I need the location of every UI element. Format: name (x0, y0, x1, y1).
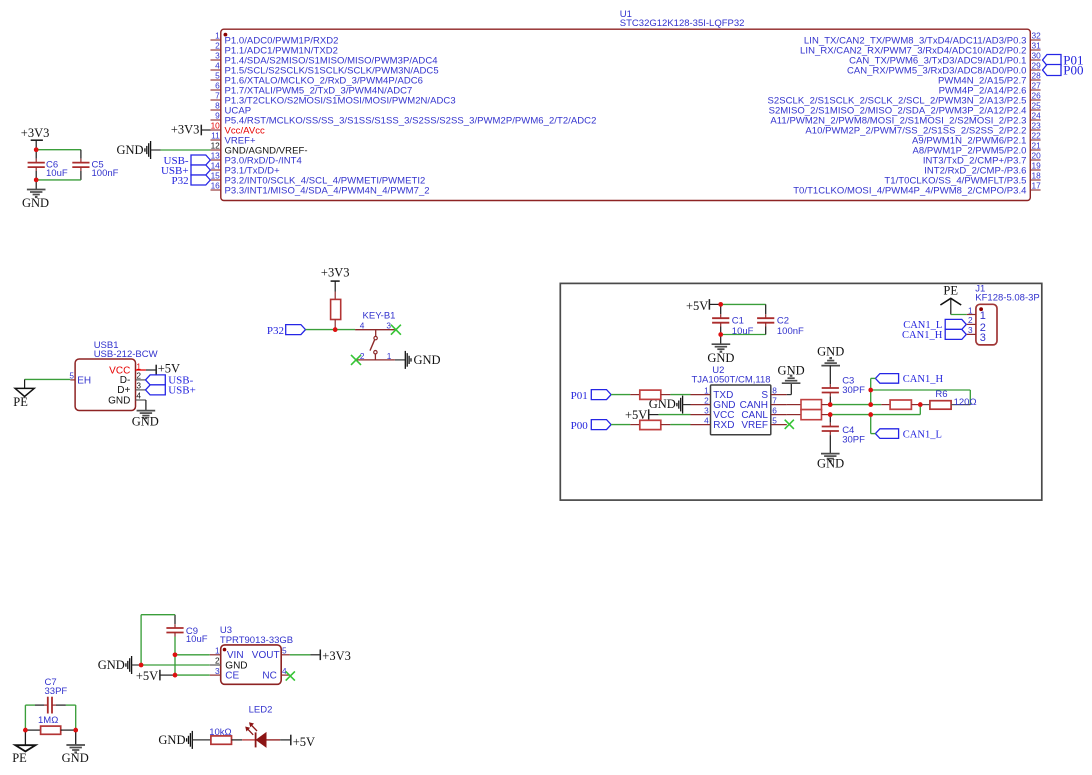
svg-text:32: 32 (1032, 31, 1042, 41)
USB1 pin 3 D+ (117, 380, 145, 396)
svg-text:+5V: +5V (158, 361, 180, 375)
U2 pin 4 RXD (691, 415, 735, 431)
svg-text:P00: P00 (571, 420, 589, 432)
svg-text:P5.4/RST/MCLKO/SS/SS_3/S1SS/S1: P5.4/RST/MCLKO/SS/SS_3/S1SS/S1SS_3/S2SS/… (225, 115, 597, 126)
U2 pin 7 CANH (740, 395, 787, 411)
power flag +5V at U2 pin3 (625, 408, 659, 422)
svg-text:3: 3 (215, 666, 220, 676)
svg-text:30PF: 30PF (842, 435, 865, 446)
U1 pin 17 T0/T1CLKO/MOSI_4/PWM4P_4/PWM8_2/CMPO/P3.4 (793, 181, 1041, 197)
U1 pin 2 P1.1/ADC1/PWM1N/TXD2 (211, 41, 338, 57)
wire CE row (175, 674, 210, 676)
power flag +3V3 at U1 pin 10 (171, 122, 211, 136)
svg-text:11: 11 (211, 131, 220, 141)
no-connect X at U2 pin5 VREF (785, 420, 794, 429)
ground symbol below C4 (817, 454, 844, 471)
resistor pull-up at KEY-B1 (331, 292, 341, 330)
svg-text:GND: GND (158, 733, 185, 747)
U3 pin 4 NC (262, 666, 290, 682)
earth PE symbol above J1 (940, 284, 961, 315)
earth PE symbol bottom-left (12, 730, 35, 765)
svg-text:13: 13 (211, 151, 221, 161)
svg-text:100nF: 100nF (777, 326, 804, 337)
svg-text:7: 7 (772, 395, 777, 405)
wire C5 bottom to C6 bottom (36, 179, 81, 181)
svg-text:GND: GND (98, 658, 125, 672)
earth PE symbol left of USB1 (13, 379, 34, 409)
wire resistor to U2 RXD (670, 424, 690, 426)
USB1 pin 4 GND (108, 390, 146, 406)
svg-text:NC: NC (262, 671, 276, 682)
svg-text:1: 1 (968, 305, 973, 315)
svg-text:+5V: +5V (136, 669, 158, 683)
svg-text:3: 3 (704, 405, 709, 415)
svg-text:GND: GND (132, 415, 159, 429)
svg-text:+3V3: +3V3 (322, 649, 351, 663)
capacitor C1 (712, 304, 754, 336)
wire C6 bottom lead (35, 167, 37, 171)
wire resistor to LED (242, 739, 255, 741)
svg-text:T0/T1CLKO/MOSI_4/PWM4P_4/PWM8_: T0/T1CLKO/MOSI_4/PWM4P_4/PWM8_2/CMPO/P3.… (793, 185, 1026, 196)
svg-text:6: 6 (772, 405, 777, 415)
no-connect X at KEY pin 2 (351, 355, 361, 365)
svg-text:P32: P32 (267, 325, 284, 337)
wire CANL row to vertical (830, 414, 871, 416)
U1 pin 32 LIN_TX/CAN2_TX/PWM8_3/TxD4/ADC11/AD3/P0.3 (804, 31, 1041, 47)
svg-text:9: 9 (215, 111, 220, 121)
svg-text:GND: GND (817, 344, 844, 358)
wire CAN1_H to CANH row (871, 377, 876, 379)
net flag USB- at USB1 (146, 375, 194, 387)
wire C9 loop left vertical (140, 615, 142, 665)
wire C6 top lead (35, 150, 37, 159)
wire PE to USB1 pin5 (25, 378, 71, 380)
svg-text:RXD: RXD (713, 420, 734, 431)
svg-text:GND: GND (117, 143, 144, 157)
U2 pin 8 S (761, 385, 786, 401)
node junction GND row (139, 663, 144, 668)
power symbol +3V3 above KEY-B1 (321, 266, 350, 292)
power symbol +3V3 top-left (21, 126, 50, 150)
U1 pin 5 P1.6/XTALO/MCLKO_2/RxD_3/PWM4P/ADC6 (211, 71, 424, 87)
resistor series P01/TXD (630, 390, 670, 399)
U1 pin 3 P1.4/SDA/S2MISO/S1MISO/MISO/PWM3P/ADC4 (211, 51, 438, 67)
resistor series P00/RXD (630, 420, 670, 429)
U1 pin 9 P5.4/RST/MCLKO/SS/SS_3/S1SS/S1SS_3/S2SS/S2SS_3/PWM2P/PWM6_2/T2/ADC2 (211, 111, 597, 127)
svg-text:16: 16 (211, 181, 221, 191)
node junction C6 bottom (34, 178, 39, 183)
power flag +3V3 at U3 VOUT (290, 649, 351, 663)
wire PE to J1 pin1 (951, 314, 967, 316)
U1 pin 6 P1.7/XTALI/PWM5_2/TxD_3/PWM4N/ADC7 (211, 81, 413, 97)
wire C9 to VIN/CE vertical (174, 637, 176, 676)
svg-text:5: 5 (215, 71, 220, 81)
net flag P00 at U1 right (1043, 62, 1084, 77)
svg-text:26: 26 (1032, 91, 1042, 101)
wire termination loop top (871, 389, 971, 391)
U2 pin 3 VCC (691, 405, 735, 421)
svg-text:5: 5 (772, 415, 777, 425)
wire P32 to key (306, 329, 356, 331)
svg-text:KF128-5.08-3P: KF128-5.08-3P (975, 293, 1039, 304)
wire C7 left corner (25, 704, 35, 706)
svg-text:GND: GND (62, 751, 89, 765)
svg-text:1: 1 (387, 351, 392, 361)
svg-text:R6: R6 (935, 389, 947, 400)
ground flag GND at U2 pin2 (649, 396, 691, 414)
svg-text:29: 29 (1032, 61, 1042, 71)
node junction mid termination (918, 402, 923, 407)
svg-text:10uF: 10uF (186, 634, 208, 645)
wire LED to +5V (266, 739, 280, 741)
svg-text:PE: PE (943, 284, 958, 298)
node junction CE row (173, 673, 178, 678)
svg-text:3: 3 (136, 380, 141, 390)
svg-text:6: 6 (215, 81, 220, 91)
wire USB1 pin4 to ground (145, 400, 147, 410)
svg-text:31: 31 (1032, 41, 1042, 51)
capacitor C9 (166, 615, 207, 645)
svg-text:STC32G12K128-35I-LQFP32: STC32G12K128-35I-LQFP32 (620, 18, 745, 29)
svg-text:27: 27 (1032, 81, 1042, 91)
wire CAN1_L to CANL row (870, 415, 872, 434)
capacitor C7 (35, 677, 67, 713)
svg-text:PE: PE (13, 395, 28, 409)
svg-text:VREF: VREF (741, 420, 768, 431)
U1 pin 8 UCAP (211, 101, 252, 117)
USB1 pin 2 D- (120, 370, 146, 386)
svg-text:+5V: +5V (293, 735, 315, 749)
wire P01 to resistor (611, 394, 630, 396)
svg-text:P00: P00 (1063, 62, 1083, 77)
U1 pin 24 A11/PWM2N_2/PWM8/MOSI_2/S1MOSI_2/S2MOSI_2/P2.3 (770, 111, 1041, 127)
svg-text:GND: GND (707, 351, 734, 365)
svg-text:15: 15 (211, 171, 221, 181)
U1 pin 20 INT3/TxD_2/CMP+/P3.7 (923, 151, 1041, 167)
svg-text:4: 4 (282, 666, 287, 676)
svg-text:25: 25 (1032, 101, 1042, 111)
capacitor C4 (822, 415, 865, 454)
U1 pin 26 S2SCLK_2/S1SCLK_2/SCLK_2/SCL_2/PWM3N_2/A13/P2.5 (768, 91, 1042, 107)
U1 pin 29 CAN_RX/PWM5_3/RxD3/ADC8/AD0/P0.0 (847, 61, 1041, 77)
svg-text:LED2: LED2 (249, 704, 273, 715)
svg-text:+3V3: +3V3 (21, 126, 50, 140)
svg-text:P01: P01 (571, 390, 588, 402)
common-mode choke lower winding (801, 410, 822, 420)
svg-text:20: 20 (1032, 151, 1042, 161)
net flag USB+ at USB1 (146, 385, 196, 397)
net flag USB+ at U1 pin 14 (161, 165, 210, 177)
wire CANH row to vertical (830, 404, 871, 406)
svg-text:2: 2 (136, 370, 141, 380)
net flag CAN1_L mid (875, 429, 941, 441)
USB1 pin 5 EH (69, 370, 91, 386)
U1 pin 15 P3.2/INT0/SCLK_4/SCL_4/PWMETI/PWMETI2 (211, 171, 426, 187)
svg-text:21: 21 (1032, 141, 1042, 151)
net flag P32 (267, 325, 306, 337)
LED LED2 (245, 722, 266, 747)
no-connect X at KEY pin 3 (391, 325, 401, 335)
svg-text:1MΩ: 1MΩ (38, 715, 58, 726)
svg-text:EH: EH (77, 375, 91, 386)
wire VIN row (175, 654, 210, 656)
U1 pin 12 GND/AGND/VREF- (211, 141, 308, 157)
U1 pin 21 A8/PWM1P_2/PWM5/P2.0 (913, 141, 1042, 157)
U1 pin 1 indicator dot (224, 33, 228, 37)
U1 pin 18 T1/T0CLKO/SS_4/PWMFLT/P3.5 (884, 171, 1041, 187)
svg-text:5: 5 (282, 646, 287, 656)
svg-text:USB+: USB+ (168, 385, 196, 397)
svg-text:VOUT: VOUT (252, 650, 280, 661)
ground symbol bottom-left (62, 730, 89, 765)
svg-text:3: 3 (980, 332, 986, 344)
svg-text:33PF: 33PF (45, 686, 68, 697)
U3 pin 2 GND (210, 656, 248, 672)
wire P00 to resistor (611, 424, 630, 426)
resistor R6 120ohm (922, 389, 976, 409)
power flag +5V above U2 (686, 299, 721, 313)
svg-text:3: 3 (215, 51, 220, 61)
svg-text:GND: GND (108, 395, 130, 406)
wire +5V to C2 (721, 303, 766, 305)
U1 pin 31 LIN_RX/CAN2_RX/PWM7_3/RxD4/ADC10/AD2/P0.2 (800, 41, 1041, 57)
net flag CAN1_H mid (875, 374, 943, 386)
connector USB1 body (75, 359, 135, 411)
wire pin12 to GND flag (161, 149, 211, 151)
svg-text:CAN1_L: CAN1_L (903, 429, 942, 440)
node junction C4/CANL (828, 412, 833, 417)
ground flag GND at LED row (158, 731, 210, 749)
power flag +5V at USB1 pin1 (146, 361, 180, 375)
svg-text:8: 8 (215, 101, 220, 111)
ground symbol below C1 (707, 344, 734, 365)
svg-text:12: 12 (211, 141, 221, 151)
wire choke lower to node (822, 414, 828, 416)
node junction termination top (868, 388, 873, 393)
U2 pin 5 VREF (741, 415, 786, 431)
U1 pin 13 P3.0/RxD/D-/INT4 (211, 151, 302, 167)
svg-text:1: 1 (704, 385, 709, 395)
J1 pin 1 (967, 305, 986, 322)
svg-text:CE: CE (225, 671, 239, 682)
wire U2 pin8 S to GND (787, 394, 792, 396)
svg-text:1: 1 (215, 646, 220, 656)
junction dots overlay (34, 147, 39, 152)
wire U2 CANH to choke (787, 404, 801, 406)
svg-text:2: 2 (215, 41, 220, 51)
IC U1 body (221, 29, 1031, 200)
svg-text:4: 4 (360, 320, 365, 330)
U2 pin 2 GND (691, 395, 736, 411)
capacitor C5 (72, 160, 118, 180)
resistor 1Mohm (25, 715, 75, 735)
resistor split termination (881, 400, 918, 409)
IC U2 body (711, 385, 771, 435)
net flag P00 (571, 420, 611, 432)
wire +3V3 to C5 top (36, 149, 81, 151)
J1 pin 3 (967, 325, 986, 344)
connector J1 body (976, 304, 997, 345)
svg-text:4: 4 (704, 415, 709, 425)
wire choke upper to node (822, 404, 828, 406)
U1 pin 25 S2MISO_2/S1MISO_2/MISO_2/SDA_2/PWM3P_2/A12/P2.4 (769, 101, 1042, 117)
ground symbol above U2 pin8 (778, 364, 805, 384)
U1 pin 23 A10/PWM2P_2/PWM7/SS_2/S1SS_2/S2SS_2/P2.2 (805, 121, 1041, 137)
U1 pin 7 P1.3/T2CLKO/S2MOSI/S1MOSI/MOSI/PWM2N/ADC3 (211, 91, 456, 107)
svg-text:10uF: 10uF (46, 168, 68, 179)
wire +5V to U2 pin3 (659, 414, 691, 416)
wire C1 to ground (720, 335, 722, 344)
power flag +5V at U3 CE (136, 669, 175, 683)
svg-text:+3V3: +3V3 (321, 266, 350, 280)
J1 pin 2 (967, 315, 986, 334)
svg-text:4: 4 (136, 390, 141, 400)
net flag CAN1_L at J1 pin2 (903, 319, 966, 331)
svg-text:120Ω: 120Ω (954, 397, 977, 408)
U1 pin 11 VREF+ (211, 131, 257, 147)
common-mode choke upper winding (801, 400, 822, 410)
svg-text:P3.3/INT1/MISO_4/SDA_4/PWM4N_4: P3.3/INT1/MISO_4/SDA_4/PWM4N_4/PWM7_2 (225, 185, 430, 196)
wire KEY pin1 to GND (395, 359, 405, 361)
wire CANH row to resistor (871, 404, 882, 406)
svg-text:GND: GND (22, 196, 49, 210)
wire resistor to U2 TXD (670, 394, 690, 396)
switch KEY-B1 (355, 320, 395, 361)
U2 pin 1 TXD (691, 385, 734, 401)
svg-text:8: 8 (772, 385, 777, 395)
wire C5 bottom lead (80, 167, 82, 171)
node junction CANH/vertical (868, 402, 873, 407)
net flag P01 (571, 390, 611, 402)
U3 pin 5 VOUT (252, 646, 290, 662)
IC U3 body (221, 645, 282, 684)
net flag P32 at U1 pin 15 (171, 175, 210, 187)
svg-text:GND: GND (778, 364, 805, 378)
U2 pin 6 CANL (741, 405, 786, 421)
U1 pin 10 Vcc/AVcc (211, 121, 266, 137)
ground symbol below C6 (22, 190, 49, 210)
wire C7 right corner (66, 704, 76, 706)
svg-text:+5V: +5V (686, 299, 708, 313)
svg-text:24: 24 (1032, 111, 1042, 121)
svg-text:22: 22 (1032, 131, 1042, 141)
ground symbol above C3 (817, 344, 844, 365)
node junction C3/CANH (828, 402, 833, 407)
svg-text:CAN1_H: CAN1_H (903, 374, 944, 385)
svg-text:4: 4 (215, 61, 220, 71)
wire CANL row jog (871, 414, 921, 416)
U1 pin 4 P1.5/SCL/S2SCLK/S1SCLK/SCLK/PWM3N/ADC5 (211, 61, 439, 77)
U1 pin 14 P3.1/TxD/D+ (211, 161, 281, 177)
svg-text:17: 17 (1032, 181, 1042, 191)
U1 pin 19 INT2/RxD_2/CMP-/P3.6 (924, 161, 1041, 177)
J1 pin1 indicator dot (979, 307, 983, 311)
capacitor C6 (28, 160, 68, 180)
node junction C1 bottom (718, 332, 723, 337)
svg-text:2: 2 (968, 315, 973, 325)
svg-text:CAN1_H: CAN1_H (902, 330, 943, 341)
wire U2 CANL to choke (787, 414, 801, 416)
U1 pin 30 CAN_TX/PWM6_3/TxD3/ADC9/AD1/P0.1 (849, 51, 1041, 67)
svg-text:100nF: 100nF (92, 168, 119, 179)
svg-text:1: 1 (215, 31, 220, 41)
svg-text:30PF: 30PF (842, 385, 865, 396)
svg-text:P1.3/T2CLKO/S2MOSI/S1MOSI/MOSI: P1.3/T2CLKO/S2MOSI/S1MOSI/MOSI/PWM2N/ADC… (225, 95, 456, 106)
node junction C1 top (718, 302, 723, 307)
U1 pin 16 P3.3/INT1/MISO_4/SDA_4/PWM4N_4/PWM7_2 (211, 181, 430, 197)
node junction +3V3/C6 top (34, 147, 39, 152)
svg-text:3: 3 (968, 325, 973, 335)
svg-text:23: 23 (1032, 121, 1042, 131)
svg-text:30: 30 (1032, 51, 1042, 61)
svg-text:2: 2 (215, 656, 220, 666)
svg-text:7: 7 (215, 91, 220, 101)
node junction VIN row (173, 653, 178, 658)
wire GND row (141, 664, 210, 666)
U3 pin 3 CE (210, 666, 240, 682)
net flag P01 at U1 right (1043, 52, 1084, 67)
no-connect X at U3 pin4 (286, 671, 295, 680)
svg-text:TJA1050T/CM,118: TJA1050T/CM,118 (692, 374, 771, 385)
svg-text:GND: GND (414, 353, 441, 367)
node junction GND side (73, 728, 78, 733)
wire to GND (35, 180, 37, 189)
svg-text:18: 18 (1032, 171, 1042, 181)
svg-text:1: 1 (980, 310, 986, 322)
U3 pin1 indicator dot (223, 648, 227, 652)
node junction PE side (23, 728, 28, 733)
svg-text:19: 19 (1032, 161, 1042, 171)
U1 pin 28 PWM4N_2/A15/P2.7 (938, 71, 1041, 87)
node junction CANL/vertical (868, 412, 873, 417)
svg-text:GND: GND (817, 456, 844, 470)
capacitor C2 (757, 304, 804, 336)
ground flag GND at U1 pin 12 (117, 141, 161, 159)
ground flag GND at U3 pin2 (98, 656, 141, 674)
svg-text:10: 10 (211, 121, 221, 131)
capacitor C3 (822, 366, 865, 405)
U1 pin 27 PWM4P_2/A14/P2.6 (939, 81, 1042, 97)
power flag +5V at LED (291, 735, 315, 749)
net flag USB- at U1 pin 13 (164, 155, 211, 167)
wire C1 bottom to C2 bottom (721, 334, 766, 336)
node junction P32/key (333, 327, 338, 332)
wire C9 loop top (141, 614, 175, 616)
ground symbol below USB1 (132, 411, 159, 429)
net flag CAN1_H at J1 pin3 (902, 329, 966, 341)
USB1 pin 1 VCC (109, 361, 146, 376)
svg-text:2: 2 (704, 395, 709, 405)
frame box CAN section (560, 283, 1042, 500)
resistor 10kohm (209, 727, 242, 744)
U1 pin 22 A9/PWM1N_2/PWM6/P2.1 (912, 131, 1041, 147)
svg-text:PE: PE (12, 751, 27, 765)
svg-text:P32: P32 (171, 175, 188, 187)
svg-text:+3V3: +3V3 (171, 122, 200, 136)
U1 pin 1 P1.0/ADC0/PWM1P/RXD2 (211, 31, 339, 47)
svg-text:28: 28 (1032, 71, 1042, 81)
svg-text:14: 14 (211, 161, 221, 171)
U3 pin 1 VIN (210, 646, 244, 662)
ground flag GND right of KEY (405, 351, 440, 369)
